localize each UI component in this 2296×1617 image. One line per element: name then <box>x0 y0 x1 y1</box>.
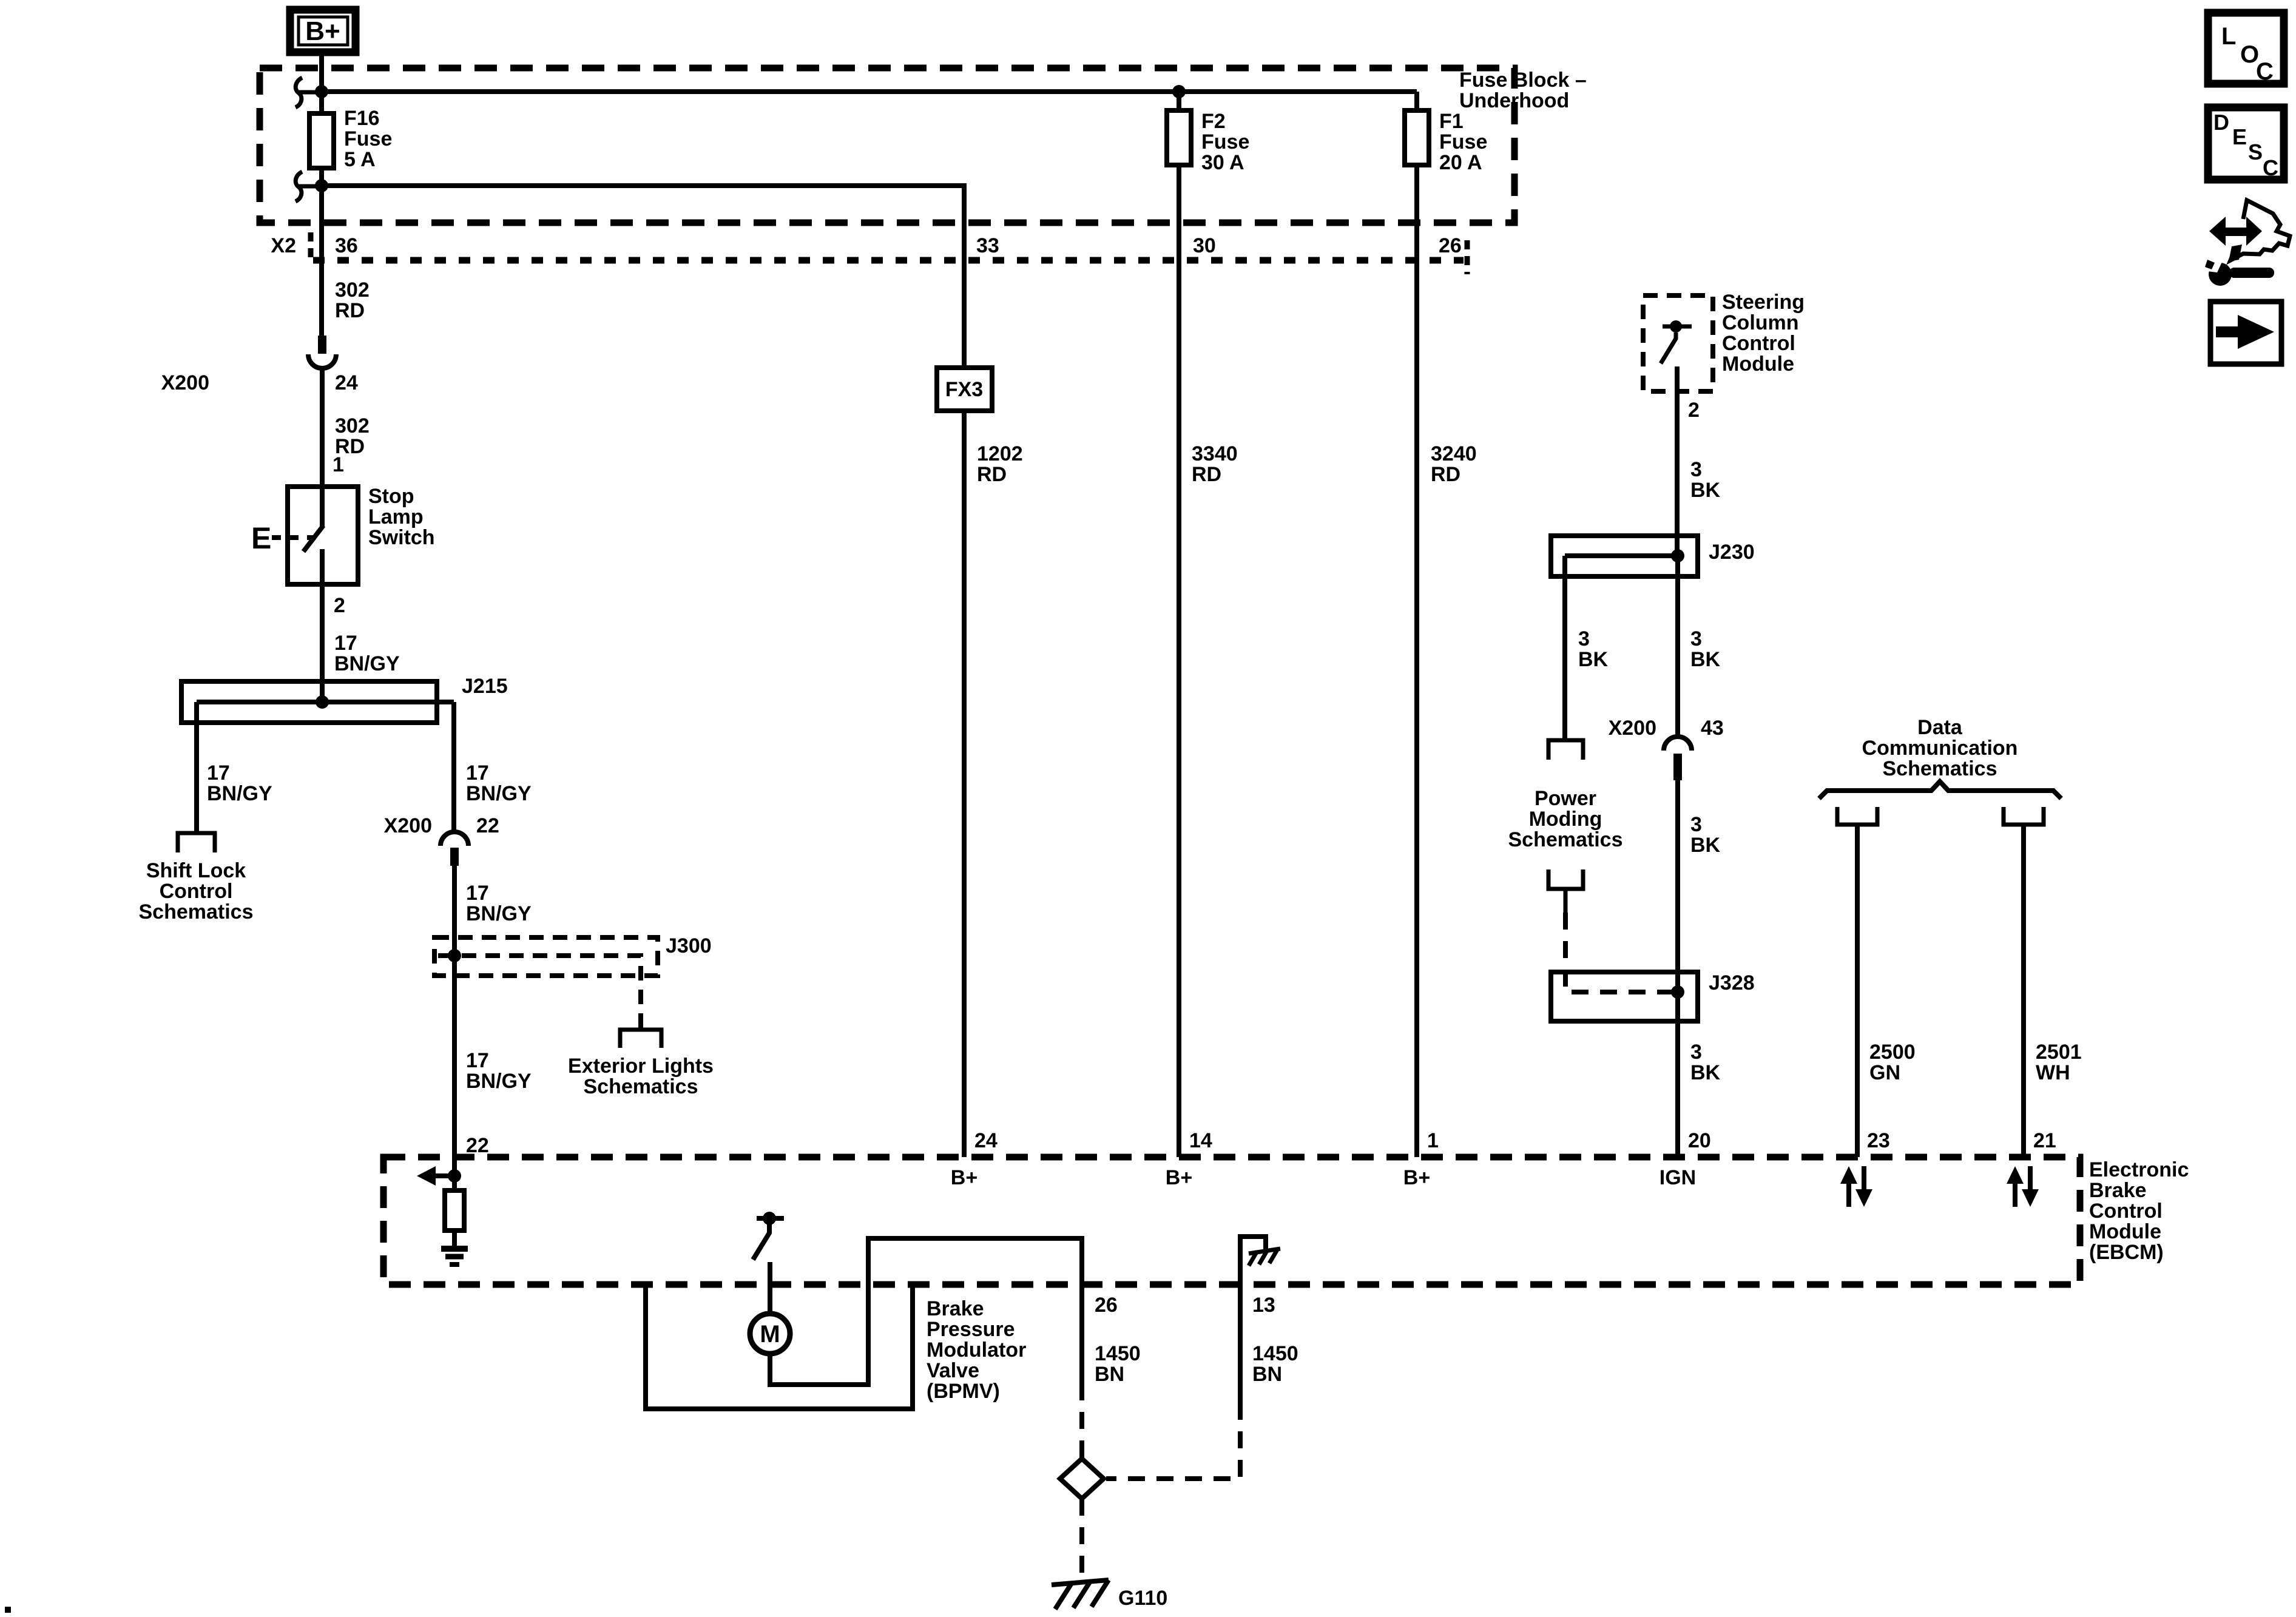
Fuse Block label <box>1459 69 1587 112</box>
off-page connector from Power Moding <box>1548 869 1583 889</box>
icon LOC <box>2208 13 2284 85</box>
svg-text:Schematics: Schematics <box>584 1075 698 1098</box>
svg-text:2501: 2501 <box>2036 1041 2082 1064</box>
node F16 output tap <box>315 179 328 192</box>
wire 17 BN/GY below J300 <box>466 1049 532 1093</box>
wire 3240 RD label <box>1431 442 1477 486</box>
svg-text:X2: X2 <box>271 234 296 257</box>
off-page connector to Shift Lock <box>178 833 215 852</box>
off-page connector to Exterior Lights <box>620 1030 661 1048</box>
Fuse Block - Underhood dashed box <box>260 68 1514 223</box>
svg-text:Schematics: Schematics <box>1508 828 1623 851</box>
svg-text:1202: 1202 <box>977 442 1023 465</box>
connector X2 row <box>271 232 1467 274</box>
svg-text:Fuse: Fuse <box>1201 130 1249 154</box>
svg-text:22: 22 <box>466 1134 489 1157</box>
off-page connector serial data left <box>1837 807 1877 825</box>
svg-text:M: M <box>760 1321 780 1348</box>
icon adjust/repair (arrow, panel, wrench) <box>2205 200 2290 286</box>
svg-text:2500: 2500 <box>1869 1041 1916 1064</box>
svg-text:3340: 3340 <box>1192 442 1238 465</box>
svg-text:J300: J300 <box>666 934 712 957</box>
svg-text:Valve: Valve <box>927 1359 979 1382</box>
svg-text:RD: RD <box>977 463 1007 486</box>
svg-text:B+: B+ <box>1166 1166 1192 1189</box>
svg-text:RD: RD <box>1192 463 1221 486</box>
svg-text:Control: Control <box>1722 332 1795 355</box>
wire F16 output <box>319 168 324 336</box>
wire B+ bus (top feed to F2/F1) <box>322 89 1417 94</box>
svg-text:Power: Power <box>1535 787 1596 810</box>
svg-text:17: 17 <box>207 761 230 785</box>
splice J328 <box>1551 971 1755 1021</box>
svg-text:3: 3 <box>1578 627 1590 650</box>
svg-text:X200: X200 <box>384 814 432 837</box>
svg-text:3: 3 <box>1690 627 1702 650</box>
svg-text:BK: BK <box>1690 834 1721 857</box>
svg-text:Modulator: Modulator <box>927 1338 1026 1362</box>
stop lamp switch S1 <box>251 485 435 584</box>
svg-text:1450: 1450 <box>1095 1342 1141 1365</box>
svg-text:(EBCM): (EBCM) <box>2089 1241 2164 1264</box>
wire F16 output to FX3 drop <box>322 186 964 368</box>
wire J230 left branch 3 BK <box>1562 556 1567 740</box>
svg-text:24: 24 <box>974 1129 998 1152</box>
svg-text:Steering: Steering <box>1722 291 1805 314</box>
svg-text:26: 26 <box>1439 234 1462 257</box>
svg-text:Communication: Communication <box>1862 737 2018 760</box>
svg-text:WH: WH <box>2036 1061 2070 1084</box>
Electronic Brake Control Module (EBCM) dashed box <box>383 1157 2080 1284</box>
svg-text:BN: BN <box>1095 1363 1124 1386</box>
svg-text:BK: BK <box>1578 648 1609 671</box>
svg-text:5 A: 5 A <box>344 148 376 171</box>
svg-text:Control: Control <box>2089 1200 2163 1223</box>
svg-text:J328: J328 <box>1709 971 1755 994</box>
wire to G110 <box>1079 1499 1084 1580</box>
splice J230 <box>1551 536 1755 576</box>
svg-text:Lamp: Lamp <box>368 505 424 528</box>
svg-text:BN/GY: BN/GY <box>466 1070 532 1093</box>
svg-text:Brake: Brake <box>2089 1179 2147 1202</box>
svg-text:22: 22 <box>476 814 499 837</box>
splice J300 (dashed) <box>434 934 712 1030</box>
svg-text:E: E <box>251 521 271 555</box>
svg-text:2: 2 <box>1688 399 1700 422</box>
svg-text:Fuse: Fuse <box>1439 130 1487 154</box>
svg-text:BK: BK <box>1690 1061 1721 1084</box>
wire switch output to J215 <box>320 549 325 702</box>
svg-text:C: C <box>2263 155 2278 180</box>
svg-text:D: D <box>2213 110 2229 135</box>
svg-text:Pressure: Pressure <box>927 1318 1015 1341</box>
wire J230 right branch 3 BK <box>1675 556 1680 735</box>
fuse clip bottom (F16) <box>295 172 322 201</box>
ground (internal) <box>441 1249 468 1264</box>
svg-text:BK: BK <box>1690 479 1721 502</box>
svg-text:C: C <box>2256 58 2274 85</box>
svg-text:G110: G110 <box>1118 1587 1167 1610</box>
svg-text:24: 24 <box>335 371 358 394</box>
serial data arrows pin 21 <box>2007 1166 2039 1207</box>
pump motor relay switch <box>753 1212 784 1260</box>
pump motor M <box>750 1314 790 1354</box>
svg-text:Fuse: Fuse <box>344 127 392 150</box>
svg-text:(BPMV): (BPMV) <box>927 1380 1000 1403</box>
svg-text:13: 13 <box>1252 1294 1275 1317</box>
svg-text:Control: Control <box>160 880 233 903</box>
svg-text:J230: J230 <box>1709 541 1755 564</box>
Data Communication Schematics <box>1862 716 2018 780</box>
svg-text:Module: Module <box>2089 1220 2161 1243</box>
BPMV box outline <box>646 1284 913 1409</box>
svg-text:BN: BN <box>1252 1363 1282 1386</box>
fuse F1 <box>1405 92 1487 174</box>
svg-text:17: 17 <box>334 632 357 655</box>
svg-text:F2: F2 <box>1201 110 1226 133</box>
svg-text:B+: B+ <box>951 1166 977 1189</box>
off-page connector to Power Moding <box>1548 740 1583 760</box>
wire relay to motor <box>768 1262 772 1314</box>
svg-text:Schematics: Schematics <box>1883 757 1997 780</box>
svg-text:B+: B+ <box>1403 1166 1430 1189</box>
svg-text:Brake: Brake <box>927 1297 984 1320</box>
svg-text:RD: RD <box>335 299 365 322</box>
svg-text:Switch: Switch <box>368 526 435 549</box>
svg-text:21: 21 <box>2033 1129 2056 1152</box>
svg-text:1: 1 <box>1427 1129 1439 1152</box>
svg-text:E: E <box>2232 124 2247 149</box>
wire module pin 2 to J230 <box>1675 366 1680 556</box>
connector X200 pin 24 <box>161 336 358 394</box>
coil / input resistor <box>445 1190 464 1230</box>
svg-text:1450: 1450 <box>1252 1342 1298 1365</box>
connector X200 pin 22 <box>384 814 499 866</box>
fuse clip top (F16) <box>295 78 322 107</box>
wire pin 13 <box>1238 1284 1243 1403</box>
wire F1 to pin 1 <box>1414 165 1419 1157</box>
svg-text:BN/GY: BN/GY <box>466 782 532 805</box>
wire 3340 RD label <box>1192 442 1238 486</box>
svg-text:Shift Lock: Shift Lock <box>146 859 246 882</box>
dashed wire to J328 <box>1565 913 1673 992</box>
svg-text:F16: F16 <box>344 107 380 130</box>
wire 3 BK to pin 20 <box>1690 1041 1721 1084</box>
svg-text:X200: X200 <box>161 371 209 394</box>
svg-text:F1: F1 <box>1439 110 1464 133</box>
splice J215 <box>181 675 508 723</box>
B+ power terminal box <box>290 10 356 52</box>
svg-text:3: 3 <box>1690 1041 1702 1064</box>
svg-text:1: 1 <box>333 453 344 476</box>
svg-text:3: 3 <box>1690 813 1702 836</box>
svg-text:17: 17 <box>466 761 489 785</box>
svg-text:3: 3 <box>1690 458 1702 481</box>
svg-text:Exterior Lights: Exterior Lights <box>568 1055 714 1078</box>
svg-text:X200: X200 <box>1609 717 1656 740</box>
connector X200 pin 43 <box>1609 717 1724 780</box>
fuse F16 <box>309 107 392 171</box>
svg-text:3240: 3240 <box>1431 442 1477 465</box>
svg-text:30: 30 <box>1193 234 1216 257</box>
node B+ bus / F16 top <box>315 85 328 98</box>
svg-text:BN/GY: BN/GY <box>466 902 532 925</box>
svg-text:20 A: 20 A <box>1439 151 1482 174</box>
svg-text:Electronic: Electronic <box>2089 1158 2189 1181</box>
svg-text:2: 2 <box>334 594 345 617</box>
pin 22 internal: driver arrow <box>417 1166 461 1186</box>
svg-text:33: 33 <box>976 234 999 257</box>
svg-text:43: 43 <box>1701 717 1724 740</box>
serial data arrows pin 23 <box>1840 1166 1872 1207</box>
splice diamond <box>1060 1459 1104 1499</box>
wire 1450 BN dashed (pin 26 to splice) <box>1079 1383 1084 1459</box>
page artifact dot <box>5 1607 11 1613</box>
svg-text:S: S <box>2248 140 2263 164</box>
svg-text:Stop: Stop <box>368 485 414 508</box>
svg-text:L: L <box>2221 23 2236 50</box>
svg-text:17: 17 <box>466 1049 489 1072</box>
svg-text:17: 17 <box>466 882 489 905</box>
wire 3 BK to J328 <box>1675 780 1680 1157</box>
wire 1450 BN dashed (pin 13 to splice) <box>1106 1403 1240 1479</box>
svg-text:20: 20 <box>1688 1129 1711 1152</box>
svg-text:BN/GY: BN/GY <box>207 782 272 805</box>
icon DESC <box>2208 107 2284 180</box>
chassis ground pin 13 (internal) <box>1240 1237 1280 1284</box>
wire J215 left branch <box>194 702 199 834</box>
wire J215 right branch <box>451 702 456 832</box>
svg-text:Fuse Block –: Fuse Block – <box>1459 69 1587 92</box>
svg-text:36: 36 <box>335 234 358 257</box>
fuse F2 <box>1167 92 1249 174</box>
svg-text:RD: RD <box>1431 463 1460 486</box>
wire motor to pin 26 <box>770 1238 1082 1385</box>
wire F2 to pin 14 <box>1177 165 1181 1157</box>
ground G110 <box>1052 1580 1167 1610</box>
svg-text:B+: B+ <box>305 16 340 46</box>
wire 2500 GN to pin 23 <box>1855 824 1860 1157</box>
wire 302 RD label (above X200) <box>335 279 370 322</box>
svg-text:14: 14 <box>1189 1129 1212 1152</box>
node F2 tap <box>1172 85 1186 98</box>
svg-text:Column: Column <box>1722 311 1799 334</box>
svg-text:Module: Module <box>1722 353 1794 376</box>
svg-text:26: 26 <box>1095 1294 1118 1317</box>
brace <box>1819 781 2061 798</box>
Steering Column Control Module (dashed box) <box>1643 291 1805 391</box>
svg-text:BK: BK <box>1690 648 1721 671</box>
wire 17 BN/GY label <box>334 632 400 675</box>
svg-text:J215: J215 <box>462 675 508 698</box>
svg-text:Underhood: Underhood <box>1459 89 1569 112</box>
icon forward arrow <box>2210 302 2281 364</box>
wire 2501 WH to pin 21 <box>2021 824 2026 1157</box>
wire B+ to fuse block bus <box>319 52 324 113</box>
svg-text:GN: GN <box>1869 1061 1900 1084</box>
wire X200-22 to EBCM pin 22 <box>452 866 457 1190</box>
svg-text:Data: Data <box>1917 716 1963 739</box>
svg-text:23: 23 <box>1867 1129 1890 1152</box>
svg-text:BN/GY: BN/GY <box>334 652 400 675</box>
svg-text:302: 302 <box>335 414 370 437</box>
off-page connector serial data right <box>2004 807 2044 825</box>
svg-text:302: 302 <box>335 279 370 302</box>
svg-text:FX3: FX3 <box>945 378 983 401</box>
svg-text:Moding: Moding <box>1529 808 1602 831</box>
svg-text:Schematics: Schematics <box>139 900 254 923</box>
svg-text:IGN: IGN <box>1660 1166 1696 1189</box>
wire 302 RD to stop lamp switch <box>320 370 325 526</box>
wire 1202 RD to pin 24 <box>962 411 967 1157</box>
svg-text:30 A: 30 A <box>1201 151 1244 174</box>
FX3 in-line connector <box>937 368 992 411</box>
